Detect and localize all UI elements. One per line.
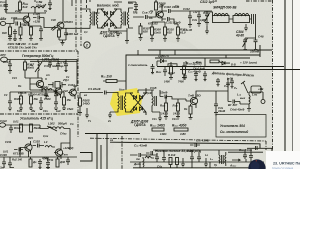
svg-text:R 240: R 240 <box>18 42 26 46</box>
svg-text:С312: С312 <box>183 7 190 11</box>
ground under C337 <box>10 167 50 168</box>
R317 wires <box>24 60 26 79</box>
coil L303 <box>45 146 55 148</box>
capacitor C303 <box>8 35 12 37</box>
value labels (modulator block) <box>84 11 122 35</box>
svg-text:0,1н: 0,1н <box>0 3 6 7</box>
svg-text:ТлФ 15Ω: ТлФ 15Ω <box>188 94 201 98</box>
svg-text:(+Ω): (+Ω) <box>227 77 233 81</box>
wire mod to mixer box <box>125 31 129 43</box>
coupling capacitor C310 <box>162 9 176 13</box>
svg-text:100пФ: 100пФ <box>250 50 260 54</box>
svg-text:0,01: 0,01 <box>13 120 19 124</box>
svg-text:С 1н00: С 1н00 <box>29 42 39 46</box>
resistor R307 <box>139 26 142 34</box>
resistor R313 horizontal <box>168 64 177 67</box>
wire H right <box>226 150 251 153</box>
crystal ZQ1 <box>50 82 66 89</box>
R324 wires + ground <box>78 93 82 116</box>
capacitor C360 <box>194 71 198 81</box>
VT308 collector wire <box>196 91 215 94</box>
capacitor C312 <box>188 12 192 27</box>
cap C320 <box>44 90 48 99</box>
resistor R332 <box>29 159 32 167</box>
vertical rule line 2 <box>292 0 294 157</box>
diode D304 <box>111 23 114 27</box>
svg-text:С4з: С4з <box>157 165 163 169</box>
capacitor C342 <box>162 154 166 162</box>
mixer output wires <box>138 88 154 93</box>
resistor R304 <box>30 27 33 35</box>
svg-text:Rвх 2х0: Rвх 2х0 <box>101 75 112 79</box>
EMF filter resonator 1 <box>213 16 230 23</box>
wire top bus <box>176 11 212 15</box>
step corner lower-left-middle <box>80 153 92 162</box>
rail E top <box>6 124 41 126</box>
resistor R321 <box>30 96 33 104</box>
output arrow Avyh <box>232 159 240 161</box>
svg-text:вых: вых <box>240 97 246 100</box>
svg-text:С4з: С4з <box>152 117 157 121</box>
resistor R320 <box>20 96 23 104</box>
svg-text:R320: R320 <box>14 97 21 101</box>
wire R308 top <box>155 0 157 2</box>
svg-text:С312 1μФ: С312 1μФ <box>200 0 215 4</box>
wire node A <box>29 8 36 17</box>
svg-text:С3: С3 <box>4 93 8 97</box>
capacitor Csv sym <box>183 74 261 94</box>
svg-text:Нижняя полоса 33, 7.5(2)кГц: Нижняя полоса 33, 7.5(2)кГц <box>155 149 201 153</box>
svg-text:R3з0: R3з0 <box>14 126 21 130</box>
svg-text:С321: С321 <box>68 83 75 87</box>
svg-text:Rэ: Rэ <box>184 107 188 111</box>
svg-text:С4з: С4з <box>192 18 198 22</box>
capacitor C348 under Csv label <box>190 143 200 147</box>
transformer T303 left winding <box>114 93 119 113</box>
transformer T305 <box>219 150 226 166</box>
resistor R333 <box>56 159 59 167</box>
ground under T303 <box>108 112 114 118</box>
cap C338 <box>66 160 70 165</box>
capacitor C350 <box>151 64 155 74</box>
svg-text:60н: 60н <box>128 1 133 5</box>
vertical dashed block divider left2 <box>80 0 82 46</box>
svg-text:С331: С331 <box>5 140 12 144</box>
value labels (generator block) <box>4 63 73 113</box>
ground row D <box>8 92 66 111</box>
wire gen mid rail <box>10 86 77 92</box>
EMF filter resonator 2 <box>233 16 250 23</box>
resistor R331 <box>30 124 33 132</box>
horizontal wire into bottom band <box>85 133 140 135</box>
wires bottom E <box>0 148 77 161</box>
cap C323 <box>54 99 58 107</box>
outer page margin (right edge, brighter) <box>293 0 300 158</box>
svg-text:4з50: 4з50 <box>179 132 186 136</box>
svg-text:Rвых 43б0: Rвых 43б0 <box>172 124 187 128</box>
svg-text:ЭМФДП-500-3В: ЭМФДП-500-3В <box>213 6 237 10</box>
value labels (IF amp block) <box>146 91 246 136</box>
svg-text:R33: R33 <box>28 136 33 140</box>
svg-text:Тз: Тз <box>150 9 154 13</box>
forum white background <box>266 151 300 169</box>
svg-text:250μН: 250μН <box>39 85 49 89</box>
svg-text:С3з0: С3з0 <box>0 119 7 123</box>
small box component <box>251 86 261 93</box>
output connector oval <box>1 57 8 62</box>
svg-text:3нF: 3нF <box>0 166 5 170</box>
svg-text:1 смеситель: 1 смеситель <box>128 63 148 67</box>
svg-text:610: 610 <box>167 31 172 35</box>
svg-text:тема создана: тема создана <box>272 167 293 170</box>
transistor VT305 <box>55 88 62 95</box>
vertical dashed page-margin divider <box>272 0 274 157</box>
transistor VT304 <box>36 80 43 87</box>
svg-text:22нФ: 22нФ <box>159 91 168 95</box>
svg-text:Свч 43пФ: Свч 43пФ <box>134 144 148 148</box>
svg-text:КТ315В: КТ315В <box>13 152 25 156</box>
svg-text:Тр: Тр <box>214 163 218 167</box>
yellow marker highlight <box>110 88 142 116</box>
output terminal XW1 <box>261 100 265 104</box>
value labels (top-right amp block) <box>149 4 198 32</box>
svg-text:Rэ: Rэ <box>18 84 22 88</box>
svg-text:140Ω: 140Ω <box>83 102 91 106</box>
capacitor C326 <box>214 91 218 115</box>
svg-text:Сс: Сс <box>66 75 70 79</box>
capacitor C343 <box>190 153 194 162</box>
svg-text:АВх: АВх <box>0 17 6 21</box>
svg-text:43нФ: 43нФ <box>217 109 226 113</box>
R315 wires <box>164 97 168 120</box>
inner mixer extra parts <box>151 62 187 79</box>
svg-text:С4зз: С4зз <box>60 132 67 136</box>
mixer box top edge <box>126 55 260 100</box>
svg-text:С311 43нФ: С311 43нФ <box>166 21 181 25</box>
svg-text:2х: 2х <box>107 119 111 123</box>
capacitor C314 trim <box>205 11 210 25</box>
inner mixer box top edge <box>155 57 250 59</box>
resistor R316 <box>177 103 180 111</box>
+12V rail upper <box>148 49 272 51</box>
capacitor C319b gen <box>10 60 68 98</box>
svg-text:0,01: 0,01 <box>3 150 9 154</box>
ground EMF left <box>205 26 209 34</box>
svg-text:141Ω: 141Ω <box>173 112 181 116</box>
R318 gnd <box>189 104 193 119</box>
diode D305 <box>134 95 137 99</box>
vertical dashed divider bottom <box>121 136 123 169</box>
wire EMF out down <box>244 47 258 50</box>
trimmer capacitor C315 <box>243 38 256 47</box>
diode D306 <box>140 95 143 99</box>
paper background <box>0 0 300 169</box>
vertical rule line 1 <box>284 0 286 158</box>
wire VT307 collector <box>61 136 70 150</box>
resistor R315 <box>165 103 168 111</box>
coupling capacitor C305 <box>33 16 44 20</box>
svg-text:Тр1: Тр1 <box>95 11 100 15</box>
resistor R341 <box>176 158 179 165</box>
svg-text:+ 12V (uст): + 12V (uст) <box>240 61 257 65</box>
coil L305 <box>145 157 154 158</box>
resistor R351 <box>170 66 173 74</box>
svg-text:КТ31: КТ31 <box>47 158 54 162</box>
series capacitor C308 <box>133 15 152 19</box>
svg-text:Сп: Сп <box>70 122 74 126</box>
value labels (top-left amp block) <box>2 9 56 35</box>
svg-text:Rб: Rб <box>149 16 153 20</box>
capacitor C313 <box>197 15 201 26</box>
svg-text:С31: С31 <box>12 76 17 80</box>
svg-text:С3з5: С3з5 <box>150 86 157 90</box>
mixer diode D310 <box>157 59 186 76</box>
svg-text:0,1: 0,1 <box>84 30 88 34</box>
cap C322 <box>39 97 43 107</box>
svg-text:КЧ315: КЧ315 <box>18 91 27 95</box>
resistor Rout1 horizontal <box>152 128 164 131</box>
capacitor C325 <box>160 90 172 99</box>
svg-text:R 2х0: R 2х0 <box>168 153 176 157</box>
svg-text:С302: С302 <box>11 16 18 20</box>
transistor VT306 <box>25 144 32 151</box>
svg-text:620: 620 <box>143 30 148 34</box>
coil L306 vertical <box>143 157 144 167</box>
capacitor C302 series <box>16 22 18 26</box>
coil L304 <box>249 92 250 107</box>
resistor Rvx horizontal <box>103 80 126 83</box>
svg-text:С317: С317 <box>3 60 10 64</box>
lower rail 1 <box>157 66 284 68</box>
capacitor C311 <box>162 17 174 24</box>
svg-text:Сэ: Сэ <box>23 23 27 27</box>
long vertical wire <box>62 0 64 22</box>
capacitor C345 <box>243 153 247 160</box>
svg-text:ГД507А: ГД507А <box>103 34 115 38</box>
diode D308 <box>140 107 143 111</box>
capacitor C302b <box>13 0 88 40</box>
coil L305h <box>39 89 54 92</box>
EMF armature bar <box>204 12 256 24</box>
top edge cut ticks <box>20 0 216 2</box>
diode D302 <box>111 11 114 15</box>
ground EMF mid <box>244 24 248 31</box>
svg-text:250μН: 250μН <box>35 4 46 8</box>
resistor R317 <box>24 62 27 70</box>
svg-text:+12В(2): +12В(2) <box>63 146 73 150</box>
inductor L301 adj <box>35 60 42 79</box>
resistor R308 <box>155 2 158 10</box>
ground R311 <box>174 24 180 41</box>
svg-text:+12: +12 <box>193 10 198 14</box>
ground H2 <box>204 158 208 167</box>
ground T304 <box>152 112 162 121</box>
resistor R352 <box>183 66 186 74</box>
svg-text:36к0: 36к0 <box>34 126 40 130</box>
svg-text:Тэт: Тэт <box>62 153 68 157</box>
wire emitter bus <box>10 22 41 39</box>
capacitor C317 <box>8 60 12 74</box>
bottom dashed boundary right edge <box>265 141 267 150</box>
svg-text:Си- монолитный: Си- монолитный <box>220 130 248 134</box>
potentiometer arrow <box>241 81 248 93</box>
wire to output filter <box>215 83 228 91</box>
transformer T304 winding <box>152 90 156 112</box>
T303 core <box>121 96 123 111</box>
svg-text:(3х0): (3х0) <box>154 31 161 35</box>
resistor R311 <box>177 27 180 35</box>
svg-text:Тр: Тр <box>44 9 48 13</box>
input connector XS1 <box>0 22 5 26</box>
svg-text:2х: 2х <box>118 31 122 35</box>
mixer box right edge <box>259 45 261 57</box>
cap C321 <box>54 90 58 99</box>
svg-text:R30: R30 <box>2 31 7 35</box>
resistor R303 <box>19 27 22 35</box>
value labels (415kHz amp block) <box>5 122 74 144</box>
inner page margin strip <box>272 0 293 158</box>
svg-text:ГД507А: ГД507А <box>134 123 146 127</box>
resistor R310 <box>164 27 167 35</box>
ring mixer cross wires <box>130 90 146 115</box>
wire top H <box>144 150 226 155</box>
resistor R340 <box>169 158 172 165</box>
svg-text:6х0: 6х0 <box>23 5 28 9</box>
extra bottom-left parts <box>10 148 50 169</box>
ground R309 <box>150 22 154 41</box>
svg-text:ВГ 80Г: ВГ 80Г <box>228 103 238 107</box>
avatar circle <box>248 159 265 176</box>
ground H1 <box>181 158 185 167</box>
svg-text:КП303: КП303 <box>64 20 73 24</box>
svg-text:св: св <box>110 139 113 142</box>
bottom solid box edge <box>110 142 260 148</box>
transistor VT308 <box>190 97 197 104</box>
svg-text:С4з: С4з <box>43 109 48 113</box>
diode D303 <box>105 23 108 27</box>
bottom rail H <box>130 155 264 162</box>
placeholder6 <box>0 0 1 1</box>
EMF output wire <box>255 24 257 38</box>
input connector oval E <box>0 123 6 127</box>
svg-text:1400: 1400 <box>164 80 170 84</box>
svg-text:1Дб: 1Дб <box>200 18 206 22</box>
svg-text:R306 1к0: R306 1к0 <box>66 32 79 36</box>
wire crystal <box>30 85 52 92</box>
svg-text:Тр30: Тр30 <box>146 91 153 95</box>
capacitor C304 <box>29 26 44 36</box>
resistor R318 <box>189 106 192 114</box>
svg-text:1н: 1н <box>46 94 49 98</box>
cap C337 <box>46 160 50 168</box>
cap C330 <box>9 125 13 133</box>
svg-text:С4б: С4б <box>258 35 264 39</box>
svg-text:140Ω: 140Ω <box>160 132 166 136</box>
capacitor C324 <box>105 91 116 95</box>
capacitor C341 <box>155 153 159 162</box>
svg-text:2х0: 2х0 <box>14 9 20 13</box>
resistor R361 horizontal <box>210 60 219 63</box>
wire input <box>6 19 22 24</box>
transformer T302 <box>117 9 122 28</box>
svg-text:С335: С335 <box>33 140 40 144</box>
wire gen out right <box>74 60 77 87</box>
transistor VT301 <box>23 16 30 23</box>
capacitor C339 <box>38 159 42 169</box>
svg-text:КТ315Б С4з 1м00 С4з: КТ315Б С4з 1м00 С4з <box>8 46 37 50</box>
block boundary dashed horizontal (gen top) <box>0 50 78 52</box>
svg-text:43нФ: 43нФ <box>185 149 194 153</box>
svg-text:С314 подстр.: С314 подстр. <box>44 64 64 68</box>
svg-text:С 4з-80: С 4з-80 <box>183 28 193 32</box>
bottom row E: cap C336 <box>2 158 12 168</box>
center tap wire <box>109 28 127 37</box>
wire drop from rail x160 <box>160 50 226 67</box>
wire gen extra <box>10 78 46 97</box>
svg-text:+12В: +12В <box>33 20 41 24</box>
ground below C301 <box>4 10 8 13</box>
R307 wires <box>139 23 143 40</box>
wire L302 <box>40 125 70 136</box>
diode D307 <box>134 107 137 111</box>
wire from amp E into mixer <box>80 92 103 94</box>
svg-text:2: 2 <box>85 44 88 48</box>
svg-text:Дз: Дз <box>32 160 37 164</box>
svg-text:36к: 36к <box>31 109 36 113</box>
svg-text:Усилитель 415 кГц: Усилитель 415 кГц <box>20 117 54 121</box>
wire top rail A <box>6 0 46 13</box>
top tick wire <box>72 0 88 9</box>
transformer T301 <box>88 9 91 28</box>
resistor R305v <box>58 30 61 37</box>
rail gen top <box>7 60 77 62</box>
svg-text:С4з: С4з <box>172 117 177 121</box>
transistor VT306b <box>70 89 77 96</box>
svg-text:С4зб 43нФ: С4зб 43нФ <box>230 108 245 112</box>
block boundary dashed horizontal (amp415 top) <box>0 113 78 115</box>
svg-text:Б-В: Б-В <box>231 63 236 67</box>
svg-text:Сп: Сп <box>175 4 179 8</box>
transistor VT307 <box>55 149 62 156</box>
svg-text:15к: 15к <box>67 98 72 102</box>
capacitor top C306b <box>48 0 52 10</box>
R316 wires <box>172 97 186 120</box>
value labels (mixer 2 block) <box>84 94 111 123</box>
label wire <box>157 61 186 66</box>
svg-text:Ссв 43пФ: Ссв 43пФ <box>239 148 253 152</box>
trimmer cap C318 <box>48 60 52 69</box>
capacitor C361 <box>203 71 207 81</box>
caps row under rail <box>216 78 220 86</box>
svg-text:Усилитель 504: Усилитель 504 <box>220 124 245 128</box>
transistor VT302 <box>57 22 64 29</box>
resistor R301 <box>9 27 12 35</box>
svg-text:51Ω: 51Ω <box>17 109 22 113</box>
capacitor C347 series in corner wire <box>256 146 258 150</box>
circled block number 2 <box>84 42 90 48</box>
wire base network <box>25 78 42 84</box>
wire to VT302 <box>44 18 57 28</box>
svg-text:Дет.: Дет. <box>133 162 141 166</box>
diode D311 <box>219 61 230 65</box>
svg-text:36к: 36к <box>34 97 39 101</box>
grain texture <box>0 0 272 169</box>
resistor R330 <box>20 124 23 132</box>
svg-text:500μН: 500μН <box>58 122 68 126</box>
wire from modulator <box>152 11 156 17</box>
resistor Rout2 horizontal <box>174 128 188 131</box>
ground mid F <box>85 108 89 118</box>
